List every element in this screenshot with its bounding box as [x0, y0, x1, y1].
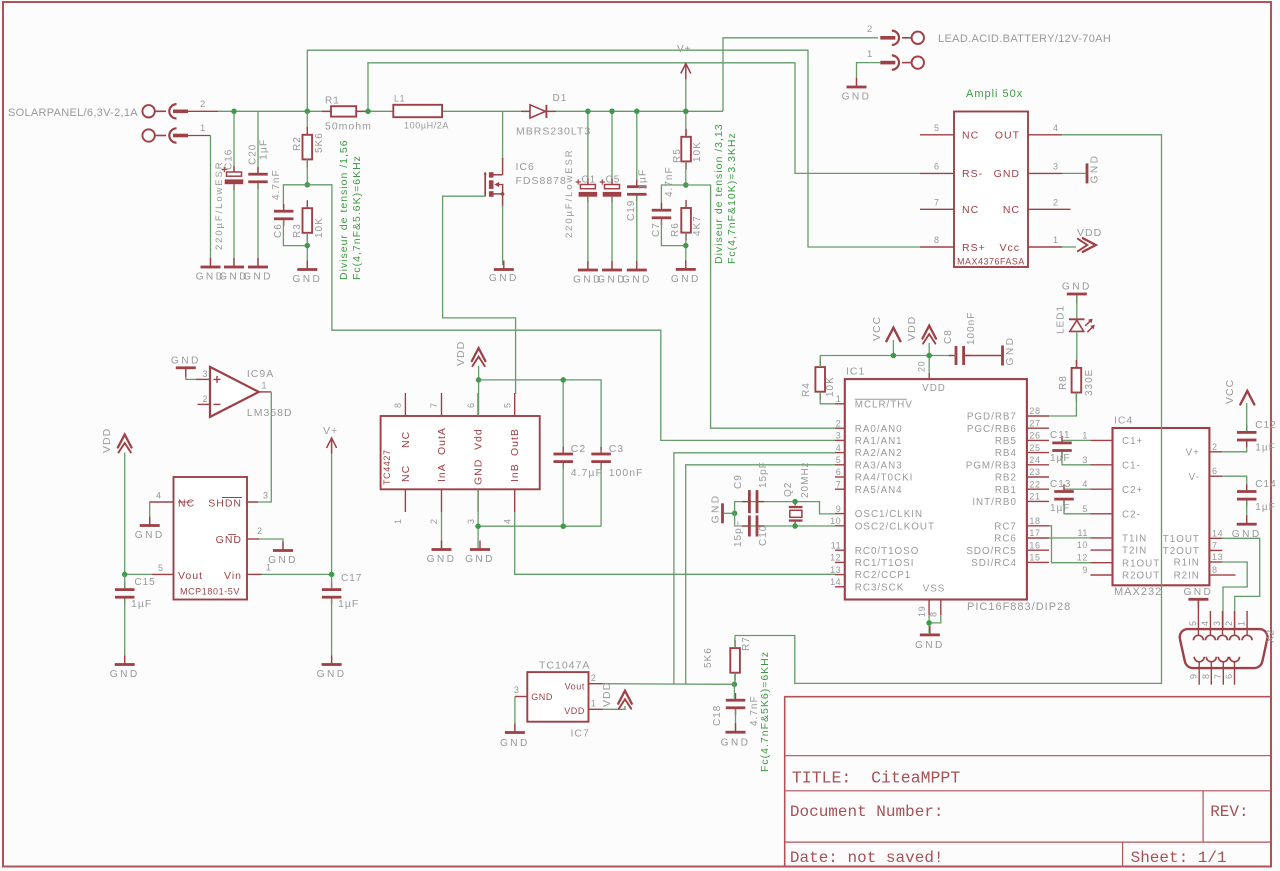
ground MCP pin4	[135, 517, 165, 542]
wire TC1047A vdd	[603, 706, 626, 709]
PIC pin 8 stub	[929, 600, 941, 618]
node crystal gnd junction	[732, 511, 738, 517]
svg-text:100nF: 100nF	[966, 312, 977, 345]
connector X1 pin 2	[142, 99, 219, 119]
svg-text:2: 2	[1053, 198, 1059, 208]
svg-text:RB5: RB5	[995, 436, 1017, 447]
voltage regulator MCP1801	[174, 477, 248, 600]
VDD supply at C15	[101, 428, 132, 453]
TC4427 pin 5 stub	[503, 393, 515, 416]
svg-text:9: 9	[836, 504, 842, 514]
svg-text:14: 14	[1212, 528, 1223, 538]
svg-text:18: 18	[1029, 516, 1040, 526]
svg-text:4: 4	[1053, 123, 1059, 133]
svg-text:27: 27	[1029, 418, 1040, 428]
node C16 bus junction	[231, 109, 237, 115]
ground crystal	[711, 493, 724, 523]
svg-text:D1: D1	[553, 93, 568, 104]
svg-text:11: 11	[831, 540, 842, 550]
wire V+ bus	[218, 110, 723, 112]
svg-text:FDS8878: FDS8878	[516, 175, 567, 187]
svg-text:OUT: OUT	[995, 130, 1020, 142]
svg-text:7: 7	[934, 198, 940, 208]
svg-text:C12: C12	[1255, 420, 1276, 431]
PIC right pin stubs	[1027, 406, 1049, 562]
svg-text:5K6: 5K6	[314, 132, 325, 153]
svg-text:C17: C17	[341, 573, 362, 584]
svg-text:C3: C3	[609, 443, 624, 455]
ground C16	[219, 258, 249, 283]
svg-text:24: 24	[1029, 455, 1040, 465]
ground PIC VSS	[915, 626, 945, 651]
MAX232 pin 4 stub	[1082, 479, 1112, 489]
svg-text:GND: GND	[915, 640, 945, 651]
wire IC9A pin3 to gnd	[186, 369, 196, 379]
MAX4376 pin 2 stub	[1028, 198, 1071, 210]
MAX232 pin 12 stub	[1077, 553, 1113, 563]
V+ supply at C17	[323, 425, 338, 454]
wire IC9A out to SHDN	[247, 392, 271, 502]
wire TC1047A gnd	[514, 697, 516, 732]
svg-text:10: 10	[830, 516, 841, 526]
wire InB to RC2 PWM net	[515, 512, 835, 574]
svg-text:R3: R3	[292, 223, 303, 238]
svg-text:28: 28	[1029, 406, 1040, 416]
svg-text:RA3/AN3: RA3/AN3	[855, 460, 903, 471]
V+ supply symbol on bus	[677, 44, 692, 80]
svg-text:VCC: VCC	[1224, 379, 1236, 404]
ground solar pin1	[196, 258, 226, 283]
svg-text:2: 2	[1224, 620, 1234, 626]
svg-text:T1IN: T1IN	[1122, 534, 1147, 545]
wire gnd rail horizontal	[478, 525, 601, 527]
DB9 label X2	[1266, 629, 1277, 643]
svg-text:3: 3	[514, 685, 520, 695]
svg-text:IC6: IC6	[516, 161, 535, 173]
wire bus to C20	[257, 111, 259, 173]
svg-text:4.7nF: 4.7nF	[664, 166, 675, 197]
ground IC6 source	[489, 261, 519, 285]
svg-text:3: 3	[263, 491, 269, 501]
svg-text:23: 23	[1029, 467, 1040, 477]
svg-text:7: 7	[1212, 540, 1218, 550]
svg-text:C9: C9	[733, 474, 744, 489]
svg-text:5: 5	[503, 402, 513, 408]
wire RC6 to T1IN	[1049, 537, 1091, 539]
svg-text:Vin: Vin	[224, 570, 242, 582]
svg-text:1: 1	[266, 563, 272, 573]
PIC left pin stubs	[830, 394, 845, 587]
svg-text:IC4: IC4	[1114, 415, 1133, 427]
wire temp net	[603, 683, 735, 686]
wire R4 bottom to MCLR	[820, 392, 835, 404]
svg-text:3: 3	[836, 431, 842, 441]
node C2 top junction	[560, 377, 566, 383]
date text	[790, 849, 944, 867]
svg-text:OSC2/CLKOUT: OSC2/CLKOUT	[855, 521, 935, 532]
capacitor C20	[248, 139, 270, 189]
svg-text:330E: 330E	[1084, 369, 1095, 396]
svg-text:17: 17	[1029, 528, 1040, 538]
wire vdd rail to C2 C3	[479, 380, 601, 450]
svg-text:10: 10	[1077, 540, 1088, 550]
MAX232 pin 2 stub	[1209, 442, 1222, 452]
node R6 bottom junction	[683, 243, 689, 249]
wire V+ to C12	[1222, 441, 1246, 452]
svg-text:PIC16F883/DIP28: PIC16F883/DIP28	[967, 601, 1071, 613]
svg-text:1: 1	[867, 49, 873, 60]
svg-text:VDD: VDD	[601, 682, 613, 707]
svg-text:1: 1	[393, 518, 403, 524]
svg-text:LED1: LED1	[1056, 305, 1067, 334]
wire C19 to gnd	[636, 196, 638, 269]
svg-text:6: 6	[934, 162, 940, 172]
svg-text:20MHz: 20MHz	[800, 461, 811, 498]
TC1047A pin 3 stub	[514, 685, 527, 697]
capacitor C8	[943, 312, 977, 365]
svg-text:NC: NC	[400, 431, 412, 448]
ground MAX4376	[1086, 154, 1101, 184]
wire VSS pins to gnd	[929, 615, 941, 623]
svg-text:2: 2	[591, 673, 597, 683]
svg-text:9: 9	[1189, 673, 1199, 679]
wire vcc rail	[820, 355, 956, 357]
MAX4376 pin 8 stub	[920, 235, 954, 247]
svg-text:1µF: 1µF	[338, 598, 359, 610]
svg-text:VDD: VDD	[455, 341, 467, 366]
svg-text:4: 4	[1200, 620, 1210, 626]
connector battery pin 2	[867, 24, 924, 45]
TC1047A pin 2 stub	[589, 673, 603, 684]
svg-text:9: 9	[1082, 565, 1088, 575]
MAX232 pin 14 stub	[1209, 528, 1223, 538]
svg-text:1: 1	[1237, 620, 1247, 626]
wire VDD stem TC4427	[478, 366, 480, 416]
wire Vin to C17	[262, 573, 332, 575]
wire C2 tap top	[562, 380, 564, 450]
wire C12 to VCC	[1246, 403, 1248, 431]
wire bus to C19	[636, 111, 638, 186]
svg-text:GND: GND	[994, 168, 1020, 180]
svg-text:5K6: 5K6	[703, 647, 714, 668]
MCP1801 pin 3 stub	[247, 491, 269, 503]
svg-text:5: 5	[158, 563, 164, 573]
MCP1801 pin 5 stub	[152, 563, 174, 574]
node C5 bus junction	[609, 109, 615, 115]
svg-text:R6: R6	[670, 222, 681, 237]
rev text	[1210, 803, 1248, 821]
svg-text:Fc(4.7nF&5K6)=6KHz: Fc(4.7nF&5K6)=6KHz	[759, 651, 771, 772]
svg-text:VDD: VDD	[906, 316, 918, 341]
svg-text:C14: C14	[1255, 479, 1276, 490]
svg-text:SDO/RC5: SDO/RC5	[966, 546, 1017, 557]
svg-text:GND: GND	[1005, 336, 1016, 366]
svg-text:6: 6	[466, 402, 476, 408]
MAX232 pin 7 stub	[1209, 540, 1222, 550]
capacitor C2	[553, 443, 602, 479]
svg-text:RA0/AN0: RA0/AN0	[855, 424, 903, 435]
ground R3	[292, 261, 322, 286]
svg-text:VDD: VDD	[922, 383, 946, 394]
MAX4376 pin 4 stub	[1028, 123, 1062, 135]
svg-text:1: 1	[262, 381, 268, 391]
svg-text:GND: GND	[473, 459, 485, 485]
MAX4376 pin 6 stub	[920, 162, 954, 174]
svg-text:R4: R4	[801, 382, 812, 397]
ground C19	[622, 261, 652, 286]
svg-text:SHDN: SHDN	[208, 498, 242, 510]
microcontroller IC1 PIC16F883	[845, 366, 1027, 600]
wire C18 leads	[733, 684, 735, 698]
MAX232 pin 6 stub	[1209, 466, 1222, 476]
svg-text:GND: GND	[1090, 154, 1101, 184]
node VCC junction	[891, 353, 897, 359]
node Q2 bottom junction	[792, 523, 798, 529]
svg-text:MCLR/THV: MCLR/THV	[855, 399, 913, 410]
svg-text:1µF: 1µF	[637, 169, 649, 190]
svg-text:20: 20	[917, 361, 927, 372]
resistor R4	[801, 359, 836, 400]
svg-text:VDD: VDD	[564, 706, 585, 716]
capacitor C3	[591, 443, 643, 479]
node R5/R6 junction	[683, 182, 689, 188]
svg-text:NC: NC	[400, 465, 412, 482]
svg-text:Diviseur de tension /1,56: Diviseur de tension /1,56	[338, 139, 350, 280]
VCC supply above PIC	[871, 316, 900, 341]
svg-text:C1-: C1-	[1122, 460, 1141, 471]
ground battery	[842, 78, 872, 103]
svg-text:RA2/AN2: RA2/AN2	[855, 448, 903, 459]
VCC supply MAX232	[1224, 379, 1254, 405]
svg-text:3: 3	[1053, 162, 1059, 172]
node Q2 top junction	[792, 499, 798, 505]
svg-text:R8: R8	[1058, 375, 1069, 390]
svg-text:1µF: 1µF	[1050, 453, 1070, 464]
diode D1	[516, 93, 591, 138]
svg-text:2: 2	[203, 394, 209, 404]
ground MCP pin2	[268, 542, 298, 567]
wire C13 top	[1064, 488, 1091, 491]
svg-text:1µF: 1µF	[1255, 502, 1275, 513]
node TC4427 gnd junction	[475, 523, 481, 529]
wire C5 to gnd	[611, 197, 613, 269]
wire RA3 net vertical	[686, 465, 835, 685]
svg-text:R1IN: R1IN	[1174, 558, 1200, 569]
node R1 left junction	[305, 109, 311, 115]
svg-text:R2OUT: R2OUT	[1122, 571, 1160, 582]
svg-text:10K: 10K	[314, 217, 325, 238]
svg-text:5: 5	[1188, 620, 1198, 626]
svg-text:7: 7	[429, 402, 439, 408]
svg-text:LM358D: LM358D	[247, 407, 293, 419]
ground C1	[573, 261, 603, 286]
wire C20 to gnd	[257, 183, 259, 266]
connector X1 pin 1	[142, 123, 210, 143]
svg-text:VCC: VCC	[871, 316, 883, 341]
MAX232 designator	[1114, 415, 1133, 427]
svg-text:8: 8	[1212, 565, 1218, 575]
current sense amplifier MAX4376	[954, 112, 1028, 268]
MAX232 pin 9 stub	[1082, 565, 1112, 575]
ground C15	[110, 656, 140, 681]
svg-text:R2IN: R2IN	[1174, 571, 1200, 582]
svg-text:Fc(4,7nF&5.6K)=6KHz: Fc(4,7nF&5.6K)=6KHz	[351, 155, 363, 280]
op-amp IC9A pin 1 stub	[259, 381, 272, 392]
svg-text:C2+: C2+	[1122, 485, 1143, 496]
DB9 top row pins	[1188, 611, 1252, 640]
wire C3 bottom	[600, 463, 602, 526]
svg-text:RA5/AN4: RA5/AN4	[855, 485, 903, 496]
capacitor C7	[651, 166, 675, 237]
wire solar pin1 to gnd	[210, 136, 212, 267]
wire vdd arrow stem	[928, 343, 930, 373]
svg-text:2: 2	[867, 24, 873, 35]
capacitor C12	[1237, 420, 1277, 454]
wire crystal gnd to node	[724, 512, 735, 514]
MAX4376 pin 3 stub	[1028, 162, 1062, 174]
svg-text:15pF: 15pF	[733, 520, 744, 547]
svg-text:1µF: 1µF	[258, 139, 270, 160]
wire C15 leads	[124, 574, 126, 588]
wire MCP gnd pin2	[259, 539, 283, 549]
svg-text:PGM/RB3: PGM/RB3	[966, 460, 1017, 471]
svg-text:3: 3	[466, 518, 476, 524]
svg-text:26: 26	[1029, 431, 1040, 441]
ground LED1	[1062, 282, 1092, 304]
wire C14 to gnd	[1246, 501, 1248, 524]
label 220uF LowESR for C1	[564, 148, 575, 238]
svg-text:5: 5	[1082, 504, 1088, 514]
svg-text:T2IN: T2IN	[1122, 546, 1147, 557]
svg-text:14: 14	[830, 577, 841, 587]
svg-text:25: 25	[1029, 443, 1040, 453]
wire V+ stem	[685, 79, 687, 111]
svg-text:X2: X2	[1266, 629, 1277, 643]
svg-text:2: 2	[836, 418, 842, 428]
svg-text:3: 3	[203, 369, 209, 379]
svg-text:RS+: RS+	[962, 242, 986, 254]
svg-text:PGD/RB7: PGD/RB7	[967, 412, 1017, 423]
TC4427 pin 3 stub	[466, 489, 478, 524]
svg-text:GND: GND	[292, 274, 322, 285]
svg-text:C15: C15	[134, 577, 155, 588]
svg-text:GND: GND	[110, 669, 140, 680]
TC4427 pin 6 stub	[466, 393, 478, 416]
svg-text:4: 4	[1082, 479, 1088, 489]
ground C8	[1001, 336, 1016, 366]
wire LED to R8	[1076, 331, 1078, 368]
svg-text:C16: C16	[224, 149, 235, 170]
wire C11 bottom	[1062, 452, 1091, 465]
svg-text:T2OUT: T2OUT	[1163, 546, 1200, 557]
svg-text:220µF/LowESR: 220µF/LowESR	[214, 160, 225, 250]
svg-text:SDI/RC4: SDI/RC4	[971, 558, 1017, 569]
svg-text:8: 8	[929, 611, 939, 617]
wire C6 to bottom junction	[283, 220, 307, 246]
svg-text:VDD: VDD	[1077, 227, 1102, 239]
svg-text:V+: V+	[323, 425, 338, 437]
svg-text:7: 7	[1213, 673, 1223, 679]
wire divider2 to RA0	[686, 185, 835, 428]
svg-text:2: 2	[257, 526, 263, 536]
svg-text:REV:: REV:	[1210, 803, 1248, 821]
ground TC1047A	[500, 724, 530, 750]
svg-text:VSS: VSS	[923, 584, 946, 595]
wire IC6 source to gnd	[502, 205, 504, 265]
wire R3 leads	[306, 233, 308, 266]
TC4427 pin 1 stub	[393, 489, 405, 524]
svg-text:InB: InB	[509, 463, 521, 482]
MAX232 pin 1 stub	[1082, 430, 1112, 440]
svg-text:Vcc: Vcc	[999, 242, 1020, 254]
svg-text:TC1047A: TC1047A	[539, 660, 590, 672]
wire OUT net	[735, 135, 1162, 684]
node VDD junction	[926, 353, 932, 359]
TC1047A label	[539, 660, 590, 672]
svg-text:OSC1/CLKIN: OSC1/CLKIN	[855, 509, 923, 520]
svg-text:GND: GND	[243, 272, 273, 283]
svg-text:RC2/CCP1: RC2/CCP1	[855, 570, 911, 581]
svg-text:InA: InA	[436, 463, 448, 482]
wire pin19 to gnd	[928, 615, 930, 633]
svg-text:Document Number:: Document Number:	[790, 803, 944, 821]
svg-text:GND: GND	[842, 92, 872, 103]
wire MCP pin4 to gnd	[149, 502, 151, 524]
wire V- to C14	[1222, 476, 1246, 490]
capacitor C9	[733, 461, 769, 513]
MAX232 pin 8 stub	[1209, 565, 1222, 575]
node R3 bottom junction	[305, 243, 311, 249]
svg-text:V-: V-	[1189, 472, 1200, 483]
svg-text:RB1: RB1	[995, 485, 1017, 496]
wire Vout to C15	[125, 573, 152, 575]
svg-text:12: 12	[830, 553, 841, 563]
svg-text:10K: 10K	[825, 376, 836, 397]
RS232 driver MAX232	[1113, 428, 1210, 585]
document number text	[790, 803, 944, 821]
wire R6 leads	[685, 233, 687, 266]
resistor R7	[703, 636, 752, 680]
svg-text:LEAD.ACID.BATTERY/12V-70AH: LEAD.ACID.BATTERY/12V-70AH	[938, 33, 1111, 45]
wire divider1 to RA1	[307, 185, 835, 441]
wire gnd rail TC4427	[477, 489, 479, 548]
MAX232 pin 10 stub	[1077, 540, 1113, 550]
svg-text:C13: C13	[1050, 479, 1071, 490]
svg-text:C1+: C1+	[1122, 436, 1143, 447]
svg-text:100µH/2A: 100µH/2A	[404, 121, 449, 131]
svg-text:21: 21	[1029, 492, 1040, 502]
svg-text:RB2: RB2	[995, 473, 1017, 484]
svg-text:Sheet: 1/1: Sheet: 1/1	[1131, 849, 1227, 867]
transistor IC6	[484, 111, 567, 207]
MAX232 pin 3 stub	[1082, 455, 1112, 465]
svg-text:6: 6	[836, 467, 842, 477]
svg-text:Q2: Q2	[783, 482, 794, 497]
svg-text:6: 6	[1212, 466, 1218, 476]
svg-text:GND: GND	[1183, 587, 1213, 598]
MAX232 label	[1114, 586, 1162, 598]
TC1047A pin 1 stub	[589, 699, 603, 710]
temperature sensor TC1047A	[527, 672, 588, 722]
capacitor C1	[576, 175, 598, 203]
wire V+ to C17 node	[331, 454, 333, 575]
wire MAX4376 gnd	[1062, 172, 1086, 174]
svg-text:2: 2	[200, 99, 206, 110]
svg-text:RA4/T0CKI: RA4/T0CKI	[855, 473, 914, 484]
svg-text:100nF: 100nF	[609, 467, 644, 479]
svg-text:GND: GND	[671, 274, 701, 285]
capacitor C13	[1050, 479, 1074, 514]
